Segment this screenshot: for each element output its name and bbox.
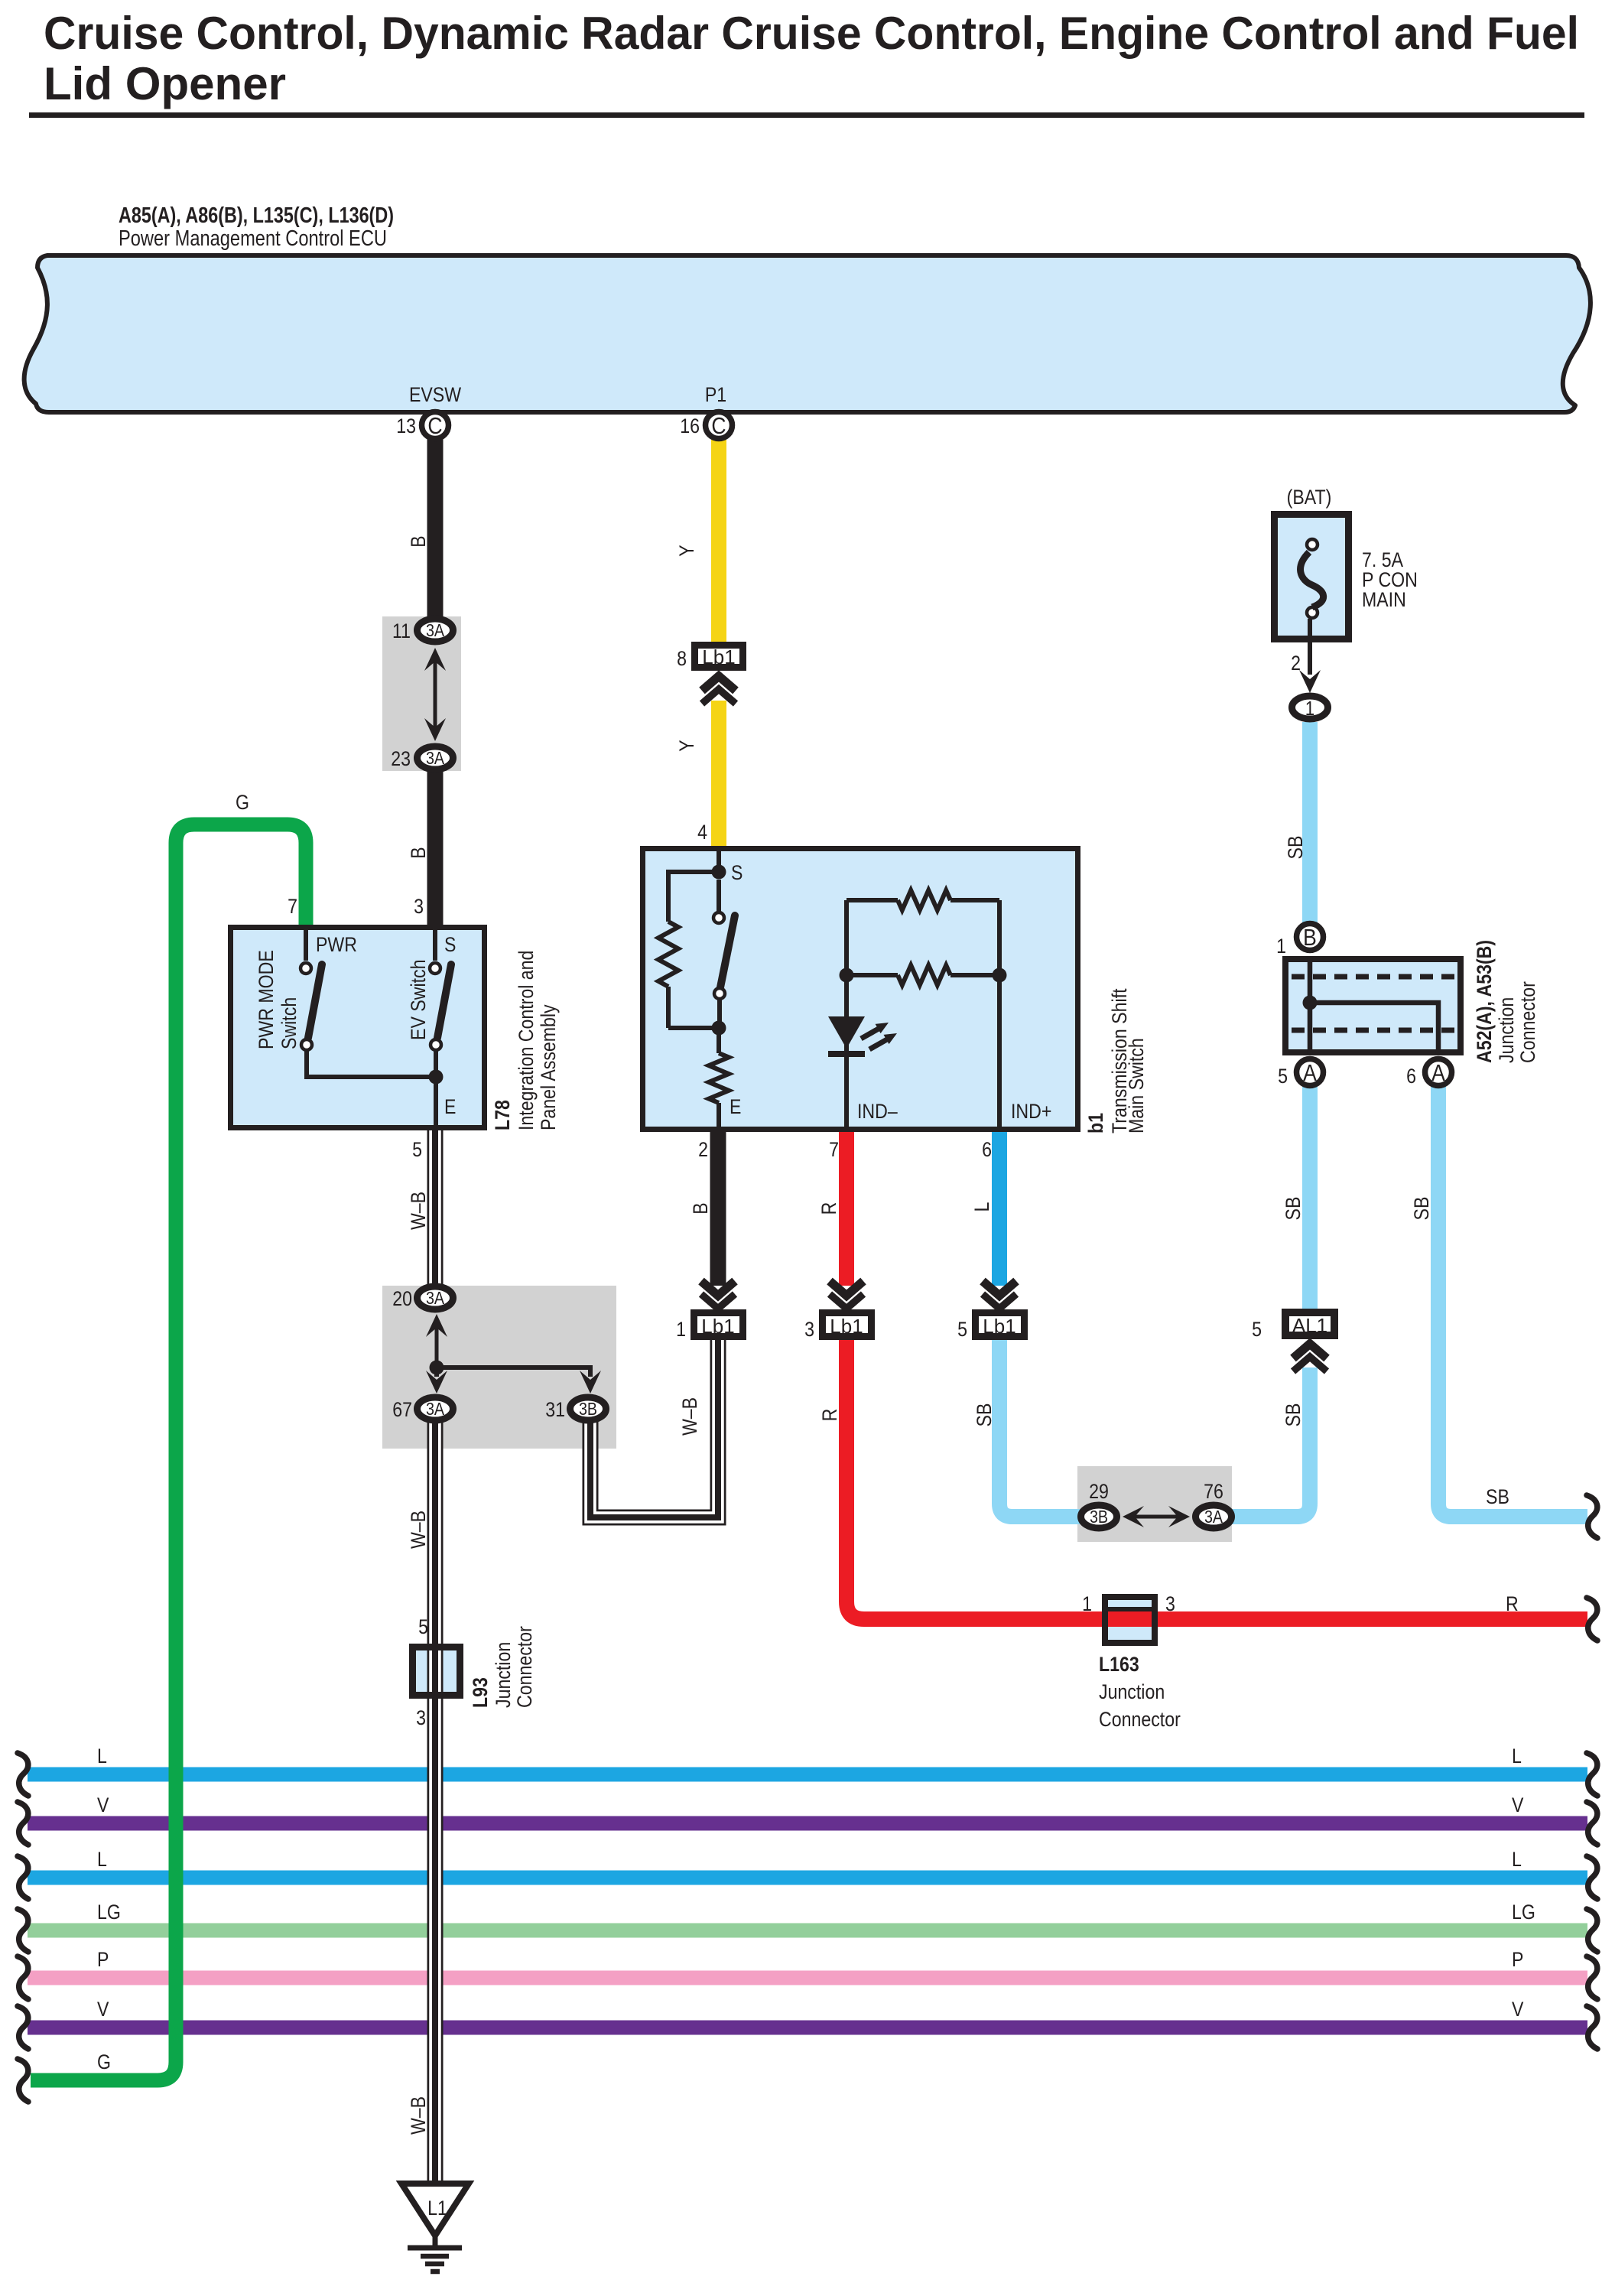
svg-text:Connector: Connector: [1516, 981, 1539, 1063]
svg-text:3A: 3A: [1204, 1507, 1223, 1527]
svg-text:2: 2: [698, 1138, 708, 1161]
svg-text:SB: SB: [1282, 1197, 1305, 1221]
svg-text:V: V: [97, 1794, 109, 1816]
svg-text:G: G: [97, 2050, 111, 2073]
svg-text:MAIN: MAIN: [1362, 588, 1406, 611]
svg-text:Connector: Connector: [513, 1626, 536, 1708]
svg-text:3A: 3A: [426, 1288, 445, 1308]
svg-text:23: 23: [391, 747, 411, 770]
svg-text:R: R: [818, 1409, 841, 1422]
svg-text:(BAT): (BAT): [1287, 486, 1332, 509]
svg-text:E: E: [444, 1095, 456, 1118]
svg-text:Panel Assembly: Panel Assembly: [537, 1004, 560, 1130]
svg-text:SB: SB: [1284, 836, 1307, 860]
svg-text:6: 6: [982, 1138, 992, 1161]
svg-text:11: 11: [392, 620, 411, 642]
svg-text:67: 67: [392, 1398, 412, 1421]
svg-text:A: A: [1431, 1059, 1445, 1086]
svg-text:Power Management Control ECU: Power Management Control ECU: [119, 226, 387, 251]
svg-text:S: S: [731, 861, 743, 884]
svg-text:V: V: [1512, 1794, 1523, 1816]
svg-text:Junction: Junction: [1099, 1680, 1165, 1703]
svg-text:G: G: [236, 791, 249, 814]
svg-text:20: 20: [392, 1287, 412, 1310]
svg-text:3: 3: [1165, 1592, 1175, 1615]
svg-text:16: 16: [680, 415, 700, 437]
svg-text:B: B: [1303, 924, 1317, 951]
svg-text:SB: SB: [1410, 1197, 1433, 1221]
svg-text:3: 3: [416, 1706, 426, 1729]
svg-text:SB: SB: [973, 1403, 996, 1427]
svg-text:5: 5: [957, 1318, 967, 1341]
svg-text:5: 5: [1278, 1065, 1288, 1088]
svg-text:A85(A), A86(B), L135(C), L136(: A85(A), A86(B), L135(C), L136(D): [119, 203, 394, 228]
svg-text:6: 6: [1406, 1065, 1416, 1088]
svg-text:Integration Control and: Integration Control and: [515, 951, 538, 1130]
svg-text:PWR MODE: PWR MODE: [255, 950, 278, 1049]
svg-text:P1: P1: [705, 383, 726, 406]
svg-text:31: 31: [545, 1398, 565, 1421]
svg-text:Connector: Connector: [1099, 1708, 1181, 1731]
svg-text:A: A: [1303, 1059, 1317, 1086]
svg-text:W–B: W–B: [407, 1511, 430, 1549]
svg-text:3: 3: [804, 1318, 814, 1341]
svg-text:V: V: [97, 1998, 109, 2021]
svg-text:S: S: [444, 933, 456, 956]
svg-text:Junction: Junction: [492, 1642, 515, 1708]
svg-text:PWR: PWR: [316, 933, 357, 956]
svg-text:Y: Y: [675, 740, 698, 751]
svg-text:B: B: [407, 535, 430, 547]
svg-text:SB: SB: [1282, 1403, 1305, 1427]
svg-text:76: 76: [1204, 1480, 1223, 1503]
svg-text:L: L: [97, 1848, 107, 1871]
svg-text:IND–: IND–: [857, 1100, 898, 1123]
svg-text:3A: 3A: [426, 1399, 445, 1419]
svg-text:R: R: [817, 1202, 840, 1215]
svg-text:3B: 3B: [579, 1399, 597, 1419]
svg-text:P: P: [97, 1948, 109, 1971]
svg-text:EVSW: EVSW: [409, 383, 462, 406]
svg-text:Lb1: Lb1: [983, 1315, 1015, 1338]
svg-text:EV Switch: EV Switch: [407, 960, 430, 1041]
svg-text:3: 3: [414, 895, 424, 918]
svg-text:L93: L93: [469, 1677, 492, 1708]
svg-text:L: L: [97, 1745, 107, 1768]
svg-text:AL1: AL1: [1292, 1314, 1327, 1337]
svg-text:L: L: [970, 1202, 993, 1212]
svg-text:E: E: [730, 1095, 741, 1118]
svg-text:Lb1: Lb1: [830, 1315, 863, 1338]
svg-text:Lb1: Lb1: [702, 646, 735, 668]
svg-text:W–B: W–B: [407, 2096, 430, 2135]
svg-text:8: 8: [677, 647, 687, 670]
svg-text:LG: LG: [1512, 1901, 1535, 1924]
svg-text:C: C: [427, 412, 442, 439]
svg-text:L: L: [1512, 1745, 1522, 1768]
svg-text:5: 5: [412, 1138, 422, 1161]
svg-text:Lid Opener: Lid Opener: [44, 58, 286, 109]
svg-text:1: 1: [676, 1318, 686, 1341]
svg-text:7: 7: [829, 1138, 839, 1161]
svg-text:L1: L1: [427, 2197, 447, 2220]
svg-text:b1: b1: [1084, 1113, 1107, 1133]
svg-text:29: 29: [1089, 1480, 1109, 1503]
svg-text:V: V: [1512, 1998, 1523, 2021]
svg-text:5: 5: [1252, 1318, 1262, 1341]
svg-text:L: L: [1512, 1848, 1522, 1871]
svg-text:B: B: [689, 1202, 712, 1214]
svg-text:1: 1: [1305, 697, 1314, 720]
svg-text:2: 2: [1291, 652, 1301, 675]
svg-text:Lb1: Lb1: [701, 1315, 734, 1338]
svg-text:A52(A), A53(B): A52(A), A53(B): [1473, 940, 1496, 1063]
svg-text:W–B: W–B: [678, 1397, 701, 1436]
svg-text:IND+: IND+: [1011, 1100, 1051, 1123]
svg-text:1: 1: [1276, 935, 1286, 958]
svg-text:13: 13: [396, 415, 416, 437]
svg-text:3A: 3A: [426, 620, 445, 640]
svg-text:W–B: W–B: [407, 1192, 430, 1230]
svg-text:Junction: Junction: [1495, 997, 1518, 1063]
svg-text:Switch: Switch: [278, 997, 301, 1049]
svg-text:SB: SB: [1486, 1485, 1509, 1508]
svg-text:1: 1: [1082, 1592, 1092, 1615]
svg-text:5: 5: [418, 1615, 428, 1638]
svg-text:Y: Y: [675, 545, 698, 556]
svg-text:L163: L163: [1099, 1653, 1139, 1676]
svg-text:B: B: [407, 847, 430, 858]
svg-text:3A: 3A: [426, 748, 445, 768]
svg-text:C: C: [711, 412, 726, 439]
svg-text:R: R: [1506, 1592, 1519, 1615]
svg-text:LG: LG: [97, 1901, 121, 1924]
svg-text:L78: L78: [491, 1100, 514, 1130]
svg-text:7: 7: [288, 895, 297, 918]
svg-text:Cruise Control, Dynamic Radar: Cruise Control, Dynamic Radar Cruise Con…: [44, 8, 1579, 59]
svg-text:3B: 3B: [1090, 1507, 1108, 1527]
svg-text:Main Switch: Main Switch: [1125, 1038, 1148, 1133]
svg-text:4: 4: [697, 821, 707, 844]
svg-text:P: P: [1512, 1948, 1523, 1971]
